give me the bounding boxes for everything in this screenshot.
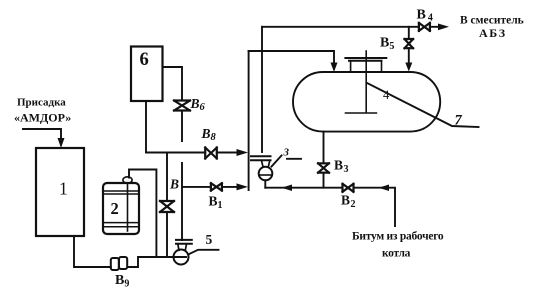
box 6 (131, 47, 163, 102)
wire tank 1 outlet to filter B9 (74, 236, 111, 267)
svg-text:1: 1 (59, 179, 68, 199)
svg-text:АБЗ: АБЗ (479, 26, 507, 40)
valve B3 (318, 158, 349, 176)
wire tank 2 riser to suction line (129, 170, 156, 258)
svg-text:Присадка: Присадка (17, 97, 66, 109)
svg-text:В4: В4 (417, 8, 433, 24)
svg-text:В8: В8 (201, 126, 217, 143)
svg-text:В2: В2 (341, 193, 356, 211)
filter B9 (111, 257, 130, 290)
wire box 6 bottom drop (145, 101, 147, 153)
valve B6 (174, 96, 206, 113)
svg-text:В1: В1 (209, 194, 223, 212)
wire additive supply into tank 1 (23, 129, 65, 148)
label V smesitel ABZ (460, 15, 524, 41)
svg-text:6: 6 (140, 50, 149, 70)
leader line to label 7 (367, 83, 479, 129)
valve B4 (417, 8, 433, 31)
manhole and mixer shaft on vessel (345, 51, 386, 113)
wire filter B9 to pump 5 suction (127, 257, 186, 267)
valve B (160, 177, 179, 213)
wire reactor drain through B3 (323, 132, 325, 188)
reactor vessel 4 (293, 72, 440, 132)
pump 3 (251, 147, 301, 181)
valve B2 (341, 184, 356, 210)
svg-text:В6: В6 (190, 96, 206, 113)
pump 5 (174, 232, 219, 265)
svg-text:2: 2 (111, 199, 119, 218)
wire top line to mixer (262, 24, 449, 31)
label bitumen from working boiler (352, 231, 444, 260)
wire line B1 (182, 183, 248, 190)
wire valve B line (166, 153, 168, 258)
tank 1 (36, 148, 84, 236)
wire additive feed to reactor top (249, 51, 338, 72)
svg-text:В9: В9 (115, 273, 129, 290)
valve B8 (201, 126, 217, 159)
wire pump 3 bottom outlet (264, 180, 266, 187)
svg-text:«АМДОР»: «АМДОР» (14, 111, 71, 125)
wire box 6 right to valve B6 and pump 5 riser (163, 67, 183, 240)
wire additive riser x248 (248, 51, 250, 190)
svg-text:В5: В5 (380, 36, 394, 53)
wire B5 branch into reactor (405, 27, 412, 72)
wire pump 3 discharge riser x262 (261, 27, 263, 152)
valve B1 (209, 183, 223, 211)
svg-text:Битум из рабочего: Битум из рабочего (352, 231, 444, 243)
svg-text:7: 7 (455, 113, 463, 129)
svg-text:В смеситель: В смеситель (460, 15, 524, 27)
valve B5 (380, 36, 413, 53)
label Prisadka AMDOR (14, 97, 71, 125)
svg-text:В: В (169, 177, 179, 192)
wire bitumen bottom line (265, 185, 395, 227)
svg-text:В3: В3 (334, 158, 349, 176)
wire line B8 (146, 149, 248, 156)
svg-text:котла: котла (382, 248, 411, 260)
tank 2 (103, 177, 139, 234)
svg-text:5: 5 (206, 232, 213, 247)
svg-text:3: 3 (283, 147, 290, 159)
